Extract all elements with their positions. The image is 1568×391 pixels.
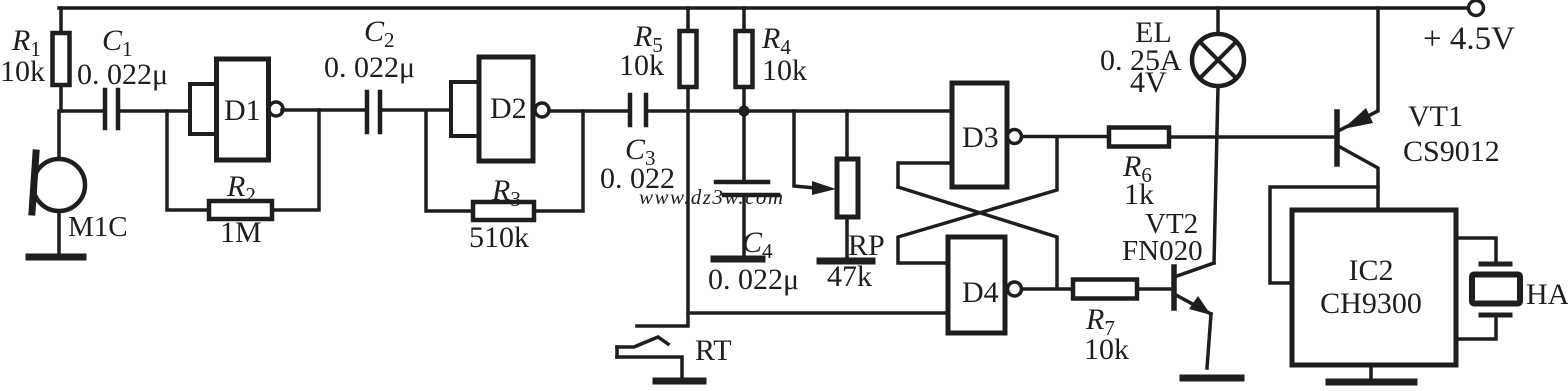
ground (M1C): [29, 254, 83, 261]
svg-text:0. 022μ: 0. 022μ: [708, 263, 799, 296]
ground (C4): [714, 256, 762, 263]
svg-text:C1: C1: [102, 24, 133, 61]
transistor VT1: [1334, 112, 1340, 164]
svg-text:CH9300: CH9300: [1320, 287, 1422, 320]
inverter D1: [190, 84, 217, 134]
svg-text:FN020: FN020: [1122, 235, 1203, 267]
microphone M1C: [57, 111, 61, 159]
svg-text:CS9012: CS9012: [1403, 135, 1500, 168]
wire R7 to VT2 base: [1137, 287, 1172, 291]
wire D1 out to C2: [282, 108, 365, 112]
svg-text:0. 022μ: 0. 022μ: [324, 51, 415, 84]
svg-text:www.dz3w.com: www.dz3w.com: [639, 185, 785, 209]
wire cross-couple D3 out to D4 in: [898, 137, 1057, 263]
svg-text:10k: 10k: [1084, 333, 1129, 366]
svg-text:D4: D4: [962, 276, 999, 309]
svg-text:R3: R3: [491, 174, 521, 211]
transistor VT2: [1171, 267, 1177, 308]
wire bottom reset line: [688, 311, 948, 315]
resistor R3: [426, 111, 473, 211]
resistor R6: [1109, 128, 1169, 147]
wire D2 out to C3: [550, 109, 628, 113]
svg-text:+ 4.5V: + 4.5V: [1423, 21, 1515, 57]
resistor R4: [742, 8, 746, 31]
ground (IC2): [1369, 365, 1373, 380]
svg-text:RT: RT: [695, 334, 732, 367]
svg-text:1k: 1k: [1124, 178, 1154, 211]
svg-text:C2: C2: [364, 15, 395, 52]
svg-text:VT1: VT1: [1408, 100, 1463, 133]
wire D4 out to R7: [1022, 287, 1073, 291]
wire C2 to D2: [382, 108, 451, 112]
svg-text:510k: 510k: [469, 221, 529, 254]
nand D4: [948, 237, 1005, 333]
resistor R2: [167, 111, 209, 210]
resistor R1: [59, 8, 63, 33]
node junction R4/C4: [739, 106, 750, 117]
wire D3 second input: [898, 163, 952, 187]
svg-text:10k: 10k: [762, 54, 807, 87]
svg-text:4V: 4V: [1130, 66, 1167, 99]
resistor R5: [686, 8, 690, 31]
switch RT: [617, 337, 668, 347]
svg-text:D1: D1: [224, 94, 261, 127]
buzzer HA: [1456, 238, 1496, 262]
svg-text:10k: 10k: [619, 49, 664, 82]
capacitor C1: [103, 90, 108, 128]
capacitor C2: [365, 92, 370, 132]
wire VT1 collector loop to IC2 left pin: [1270, 187, 1378, 283]
ground (RP): [820, 258, 872, 265]
wire R6 to VT1 base: [1169, 135, 1335, 139]
resistor R7: [1073, 280, 1137, 299]
svg-text:RP: RP: [848, 229, 885, 262]
wire C3 to D3: [648, 109, 952, 113]
capacitor C4: [742, 111, 746, 181]
ground (RT): [656, 378, 703, 385]
lamp EL: [1216, 8, 1220, 34]
capacitor C3: [628, 95, 633, 125]
svg-text:HA: HA: [1526, 278, 1568, 311]
potentiometer RP: [845, 111, 849, 159]
svg-text:M1C: M1C: [68, 211, 128, 243]
svg-text:47k: 47k: [827, 260, 872, 293]
terminal +4.5V: [1469, 1, 1484, 16]
svg-text:D3: D3: [962, 121, 999, 154]
svg-text:10k: 10k: [0, 55, 45, 88]
IC IC2: [1292, 210, 1456, 365]
power rail +4.5V: [59, 6, 1468, 10]
svg-text:0. 022μ: 0. 022μ: [77, 58, 168, 91]
wire R1 to C1: [61, 109, 103, 113]
svg-text:IC2: IC2: [1349, 254, 1394, 287]
wire D3 out to R6: [1022, 135, 1109, 139]
nand D3: [952, 83, 1007, 187]
wire cross-couple D4 out to D3 in: [898, 187, 1057, 288]
ground (VT2): [1183, 375, 1241, 382]
svg-text:R2: R2: [226, 170, 256, 207]
svg-text:D2: D2: [490, 92, 527, 125]
inverter D2: [451, 82, 479, 136]
svg-text:1M: 1M: [220, 216, 262, 249]
wire C1 to D1: [120, 109, 190, 113]
